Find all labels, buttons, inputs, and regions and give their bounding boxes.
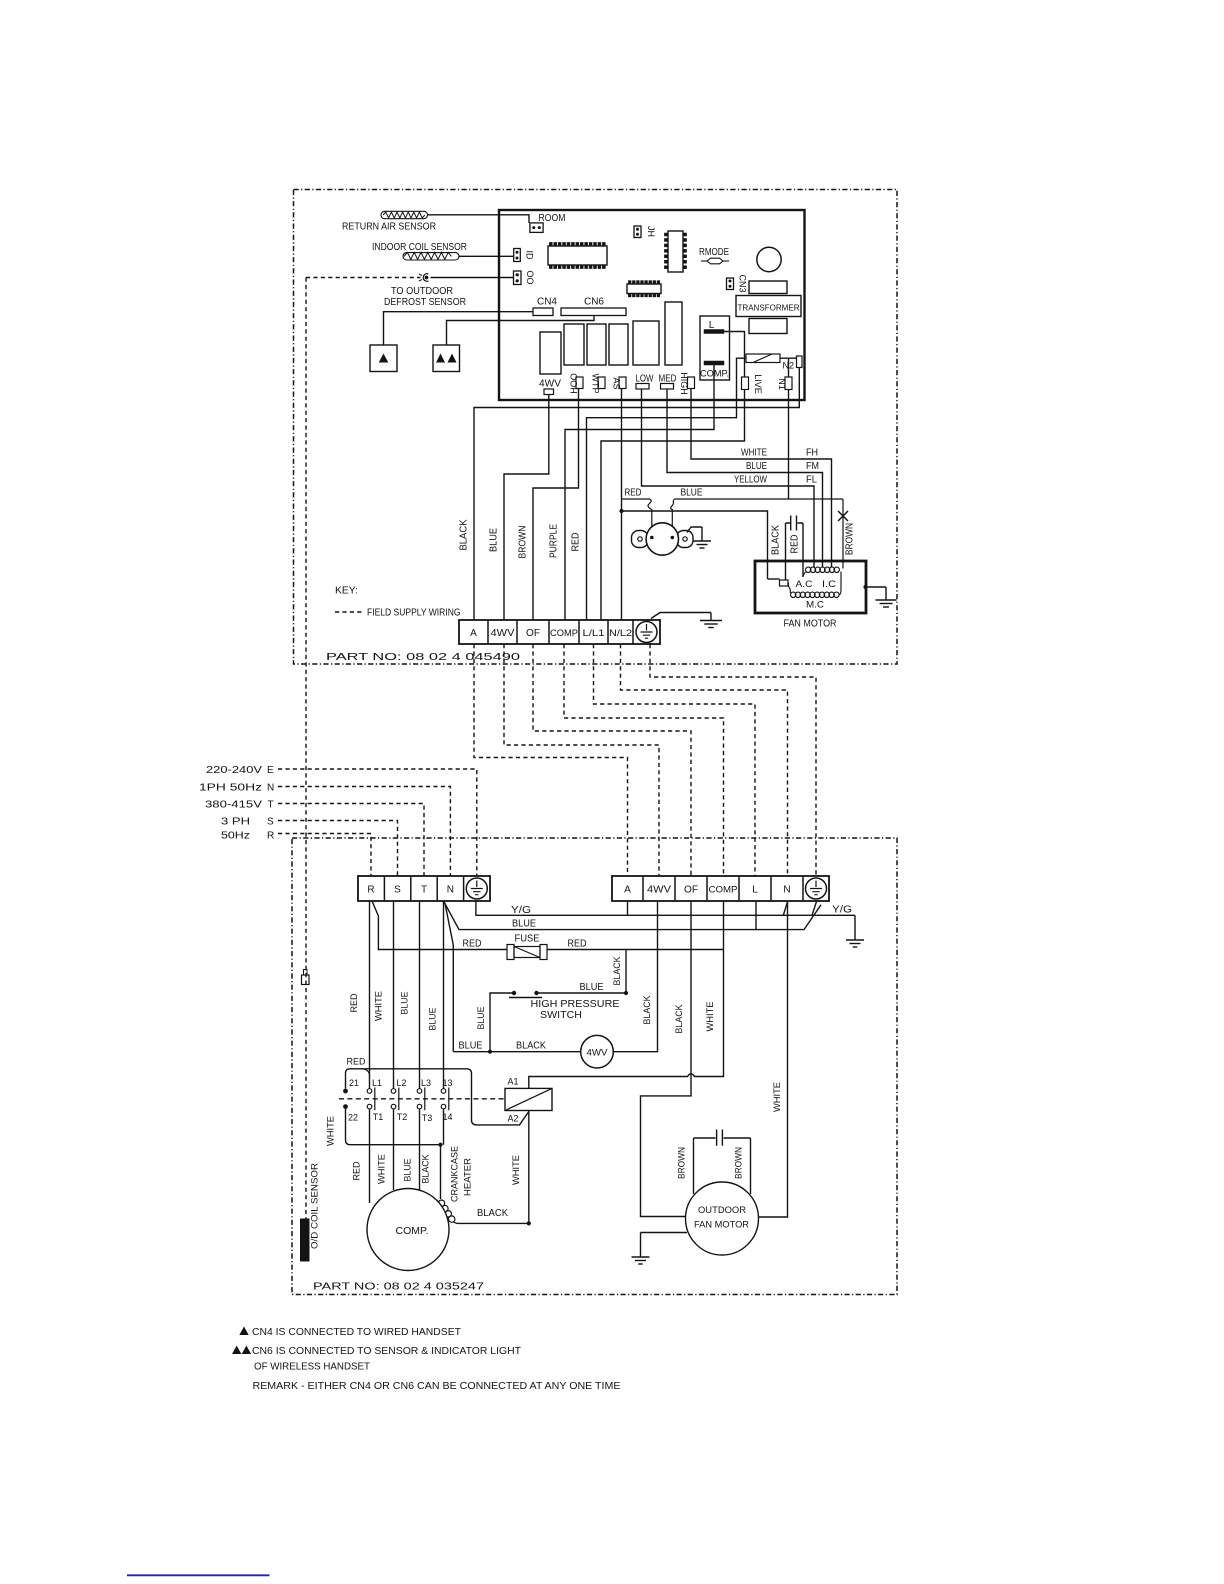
earth terminal symbol (TB2)	[466, 878, 487, 899]
svg-text:BLACK: BLACK	[674, 1005, 684, 1034]
svg-text:BROWN: BROWN	[845, 523, 856, 555]
svg-text:CRANKCASE: CRANKCASE	[450, 1146, 460, 1202]
svg-text:O/D COIL SENSOR: O/D COIL SENSOR	[310, 1163, 321, 1249]
wire N terminal down to contact 13	[443, 901, 445, 1089]
svg-text:BLUE: BLUE	[681, 488, 703, 499]
svg-text:TRANSFORMER: TRANSFORMER	[738, 303, 800, 313]
wire lug to M.C winding	[787, 584, 789, 587]
field wire L/L1-L (TB1 to TB3)	[594, 644, 756, 876]
svg-text:N: N	[447, 885, 454, 896]
wire N to 4WV valve line (diagonal feed)	[445, 904, 453, 1052]
relay K5	[633, 321, 659, 365]
svg-text:WHITE: WHITE	[374, 991, 384, 1021]
svg-text:L3: L3	[421, 1078, 431, 1088]
svg-text:A1: A1	[507, 1077, 518, 1087]
svg-text:22: 22	[348, 1113, 358, 1123]
svg-text:MED: MED	[659, 374, 677, 385]
ground at TB1 earth	[651, 613, 711, 619]
fan motor enclosure	[755, 561, 866, 613]
svg-text:BLUE: BLUE	[489, 528, 500, 552]
crankcase heater R1 (coil)	[438, 1200, 444, 1206]
svg-text:ROOM: ROOM	[539, 213, 566, 224]
pin pad WTP	[598, 377, 605, 389]
svg-text:BLUE: BLUE	[403, 1159, 413, 1182]
svg-text:S: S	[267, 817, 274, 828]
connector ROOM on PCB	[530, 223, 543, 233]
pin pad OOH	[576, 377, 583, 389]
wire 22 to aux line	[346, 1107, 441, 1145]
contact bar upper (comp relay)	[704, 330, 724, 334]
svg-text:RED: RED	[349, 993, 359, 1012]
svg-text:FIELD SUPPLY WIRING: FIELD SUPPLY WIRING	[367, 608, 461, 619]
svg-text:CN4: CN4	[537, 297, 557, 308]
wire OF terminal (BROWN)	[533, 389, 579, 621]
svg-text:RED: RED	[568, 939, 587, 950]
svg-text:FH: FH	[806, 448, 818, 459]
pin N2	[797, 356, 803, 368]
wire LIVE pin to PCB edge	[744, 390, 746, 401]
field wire N/L2-N (TB1 to TB3)	[621, 644, 788, 876]
node junction aux/heater	[438, 1143, 442, 1147]
wire R to contactor L1 (RED)	[369, 901, 371, 1089]
connector ID on PCB	[514, 249, 521, 262]
svg-text:FAN MOTOR: FAN MOTOR	[784, 619, 837, 630]
wire capacitor right lead (BROWN)	[750, 1138, 752, 1194]
wire HPS right (BLUE)	[537, 992, 627, 994]
field wire E (TB1 to TB3)	[650, 644, 816, 876]
wire N1 down to PCB edge	[788, 390, 790, 401]
footnote triangle 1	[239, 1327, 248, 1336]
svg-text:DEFROST SENSOR: DEFROST SENSOR	[384, 297, 466, 308]
svg-text:BLUE: BLUE	[400, 992, 410, 1015]
svg-text:RETURN AIR SENSOR: RETURN AIR SENSOR	[342, 222, 436, 233]
terminal block TB1 (indoor unit)	[459, 620, 660, 644]
svg-text:PURPLE: PURPLE	[549, 524, 560, 558]
field wire 4WV (TB1 to TB3)	[504, 644, 659, 876]
svg-text:BLACK: BLACK	[459, 519, 470, 550]
wire node to fan motor (BLACK)	[622, 511, 768, 579]
svg-text:I.C: I.C	[822, 579, 837, 589]
terminal lug (fan motor)	[780, 580, 789, 586]
pin pad MED	[661, 384, 674, 390]
svg-text:1PH 50Hz: 1PH 50Hz	[199, 783, 262, 794]
svg-text:SWITCH: SWITCH	[540, 1010, 582, 1021]
relay K6 (tall)	[665, 302, 682, 365]
component F1 (relay with diagonal)	[746, 354, 780, 363]
wire COMP bar down to PCB edge	[713, 365, 715, 400]
svg-text:RED: RED	[790, 535, 801, 554]
field wire OF (TB1 to TB3)	[533, 644, 691, 876]
svg-text:CN4 IS CONNECTED TO WIRED HAND: CN4 IS CONNECTED TO WIRED HANDSET	[252, 1327, 461, 1338]
fan motor M.C winding	[791, 592, 796, 597]
svg-text:WHITE: WHITE	[326, 1116, 336, 1146]
O/D coil sensor plug	[302, 975, 310, 985]
svg-text:T3: T3	[422, 1113, 433, 1123]
node junction heater line	[527, 1221, 531, 1225]
ground at thermal protector	[687, 527, 702, 533]
stub A terminal to Y/G wire	[627, 901, 629, 916]
bottom outer enclosure border (outdoor unit, dash-dot)	[292, 838, 897, 1295]
svg-text:R: R	[367, 885, 374, 896]
buzzer BZ (circle)	[757, 247, 781, 271]
wire 14 drop	[443, 1109, 445, 1145]
component RMODE (jumper link)	[701, 260, 707, 262]
svg-text:WHITE: WHITE	[511, 1155, 521, 1185]
svg-text:JH: JH	[646, 226, 656, 237]
svg-text:A: A	[624, 885, 631, 896]
svg-text:OUTDOOR: OUTDOOR	[698, 1205, 746, 1216]
wire 4WV valve line left	[453, 1051, 580, 1053]
svg-text:FL: FL	[806, 475, 817, 486]
svg-text:S: S	[394, 885, 401, 896]
connector CN4 on PCB	[533, 308, 553, 316]
wire L-bar to LIVE pin	[724, 332, 745, 378]
wire return air sensor to ROOM connector	[428, 215, 530, 223]
wireless handset connector box (double triangle)	[433, 345, 460, 372]
wire T3 into compressor (BLUE)	[419, 1109, 421, 1191]
wire BLUE (N TB2 across to right)	[444, 901, 822, 930]
transformer T1 (core blocks)	[749, 281, 787, 294]
wire A2 down to heater line (WHITE)	[528, 1111, 530, 1222]
wire capacitor right lead (RED) to A.C winding	[802, 523, 804, 577]
outdoor fan motor	[686, 1182, 759, 1255]
wire E terminal tap to Y/G	[812, 902, 817, 916]
svg-text:BLUE: BLUE	[428, 1008, 438, 1031]
node junction 4WV valve line	[488, 1050, 492, 1054]
svg-text:COMP: COMP	[550, 628, 578, 639]
wire T2 into compressor (WHITE)	[393, 1109, 395, 1190]
defrost sensor plug symbol	[423, 274, 428, 282]
field wire R supply	[278, 834, 371, 877]
svg-text:L2: L2	[396, 1078, 406, 1088]
svg-text:M.C: M.C	[806, 600, 825, 610]
wire outdoor fan right lead to N terminal (WHITE)	[759, 901, 788, 1217]
jumper JH	[634, 226, 641, 238]
indoor coil sensor element	[403, 253, 459, 260]
svg-text:R: R	[267, 831, 274, 842]
IC U2 (DIP package vertical)	[668, 231, 683, 272]
svg-text:Y/G: Y/G	[832, 905, 852, 916]
outdoor fan capacitor C2	[694, 1130, 751, 1146]
wire A terminal (BLACK)	[474, 400, 799, 620]
svg-text:CN6: CN6	[584, 297, 604, 308]
svg-text:A2: A2	[507, 1114, 518, 1124]
wire 21 jumper to A2	[346, 1069, 529, 1125]
svg-text:L/L1: L/L1	[583, 628, 605, 638]
svg-text:T: T	[421, 885, 427, 896]
svg-text:BROWN: BROWN	[734, 1147, 744, 1179]
svg-text:OF: OF	[526, 628, 540, 639]
svg-text:WHITE: WHITE	[705, 1002, 715, 1032]
wire indoor coil sensor to ID connector	[459, 255, 514, 257]
svg-text:4WV: 4WV	[539, 379, 561, 390]
wire L/L1 terminal (RED)	[587, 400, 737, 620]
svg-text:OO: OO	[525, 270, 535, 284]
svg-text:RED: RED	[571, 533, 582, 552]
svg-text:BLUE: BLUE	[459, 1041, 483, 1052]
high pressure switch S1 contacts	[512, 991, 516, 995]
svg-text:BLUE: BLUE	[580, 982, 604, 993]
IC U3 (small DIP package)	[627, 284, 661, 294]
wired handset connector box (single triangle)	[370, 345, 397, 372]
terminal block TB2 (supply R S T N earth)	[358, 876, 490, 901]
relay K1 (4WV)	[540, 332, 561, 374]
fuse F2	[507, 945, 514, 960]
svg-text:L1: L1	[372, 1078, 382, 1088]
svg-text:T1: T1	[373, 1112, 384, 1122]
field wire A (TB1 to TB3)	[474, 644, 628, 876]
wire N1 up to F1 lead	[788, 358, 790, 377]
svg-text:LIVE: LIVE	[753, 374, 763, 394]
svg-text:HEATER: HEATER	[463, 1157, 473, 1196]
svg-text:RED: RED	[463, 939, 482, 950]
earth terminal symbol (TB1)	[636, 622, 657, 643]
wire black lead into lug	[768, 578, 780, 580]
key dashed sample line	[335, 611, 365, 613]
field wire COMP (TB1 to TB3)	[564, 644, 724, 876]
node junction on N/L2 wire	[619, 509, 623, 513]
pin pad 4WV	[544, 389, 554, 395]
svg-text:YELLOW: YELLOW	[734, 475, 767, 486]
wire 4WV terminal (BLUE)	[504, 395, 549, 621]
svg-text:220-240V: 220-240V	[206, 765, 262, 776]
svg-text:KEY:: KEY:	[335, 586, 358, 597]
svg-text:FUSE: FUSE	[515, 934, 540, 945]
PCB board outline	[499, 210, 805, 400]
svg-text:13: 13	[442, 1078, 452, 1088]
svg-text:T2: T2	[397, 1112, 408, 1122]
wire RED with fuse (N to COMP column)	[372, 901, 724, 950]
svg-text:OF: OF	[684, 885, 698, 896]
svg-text:WHITE: WHITE	[741, 448, 767, 459]
top outer enclosure border (indoor unit, dash-dot)	[294, 190, 898, 665]
wire 21 jumper join L1	[362, 1069, 370, 1079]
svg-text:TO OUTDOOR: TO OUTDOOR	[391, 286, 453, 297]
solenoid 4WV	[581, 1035, 614, 1068]
svg-text:3 PH: 3 PH	[221, 817, 250, 828]
wire T to contactor L3 (BLUE)	[419, 901, 421, 1089]
connector CN3	[727, 278, 734, 290]
fan motor capacitor C1	[786, 516, 804, 531]
svg-text:ID: ID	[525, 251, 535, 261]
svg-text:4WV: 4WV	[587, 1048, 609, 1059]
svg-text:FAN MOTOR: FAN MOTOR	[694, 1220, 749, 1231]
wire N/L2 terminal (from AS pin)	[621, 389, 623, 621]
svg-text:LOW: LOW	[636, 374, 654, 385]
svg-text:PART NO: 08 02 4 045490: PART NO: 08 02 4 045490	[326, 652, 521, 663]
svg-text:RED: RED	[347, 1057, 366, 1067]
wire N terminal tap to Y/G	[783, 902, 787, 916]
svg-text:N/L2: N/L2	[609, 628, 632, 638]
wire FM (BLUE, MED pin to fan)	[667, 389, 823, 567]
svg-text:50Hz: 50Hz	[221, 831, 250, 842]
wire L/L1 second (to LIVE pin)	[601, 400, 745, 620]
svg-text:BLACK: BLACK	[516, 1041, 546, 1052]
wire protector red lead	[622, 499, 652, 535]
return air sensor element	[381, 211, 428, 218]
relay COMP outline	[700, 316, 730, 380]
wire S to contactor L2 (WHITE)	[393, 901, 395, 1089]
relay K3	[587, 324, 606, 365]
contactor MC main/aux contacts	[367, 1089, 372, 1094]
wire heater to A2 node (BLACK)	[454, 1222, 529, 1224]
wire HPS left (BLUE) down	[490, 993, 514, 1050]
wire 4WV terminal down to valve line (BLACK)	[613, 901, 657, 1052]
svg-text:COMP: COMP	[709, 885, 738, 896]
svg-text:OF WIRELESS HANDSET: OF WIRELESS HANDSET	[254, 1362, 370, 1373]
wire BLACK drop (fuse line to HPS line)	[625, 950, 627, 992]
field wire S supply	[278, 821, 398, 877]
field wire E supply	[278, 769, 477, 876]
break mark X on brown wire	[838, 511, 848, 521]
wire defrost plug to OO connector	[431, 277, 514, 279]
O/D coil sensor element	[301, 1219, 310, 1261]
wire FL (YELLOW, LOW pin to fan)	[642, 389, 815, 567]
svg-text:BLACK: BLACK	[642, 996, 652, 1025]
footnote triangles 2	[232, 1346, 241, 1355]
wire capacitor left lead to terminal lug	[785, 523, 787, 580]
svg-text:BLACK: BLACK	[477, 1208, 508, 1219]
svg-text:N1: N1	[777, 378, 787, 390]
svg-text:BROWN: BROWN	[677, 1147, 687, 1179]
wire L terminal drop to BLUE	[755, 901, 757, 930]
wire OF terminal to outdoor fan (BLACK)	[641, 901, 692, 1217]
svg-text:A.C: A.C	[796, 579, 814, 589]
svg-text:BLACK: BLACK	[612, 957, 622, 986]
connector OO on PCB	[514, 271, 522, 285]
svg-text:FM: FM	[806, 461, 819, 472]
svg-text:REMARK - EITHER CN4 OR CN6 CAN: REMARK - EITHER CN4 OR CN6 CAN BE CONNEC…	[253, 1381, 621, 1392]
svg-text:380-415V: 380-415V	[205, 800, 262, 811]
svg-text:E: E	[267, 765, 274, 776]
svg-text:L: L	[752, 885, 758, 896]
svg-text:CN6 IS CONNECTED TO SENSOR & I: CN6 IS CONNECTED TO SENSOR & INDICATOR L…	[252, 1346, 521, 1357]
svg-text:4WV: 4WV	[491, 628, 515, 639]
svg-text:RED: RED	[352, 1161, 362, 1180]
ground at fan motor right	[866, 586, 886, 588]
svg-text:BLUE: BLUE	[512, 919, 536, 930]
wire F1 left lead down to PCB edge	[737, 358, 747, 400]
fan motor A.C/I.C winding	[806, 567, 811, 572]
node junction HPS line	[624, 991, 628, 995]
svg-text:BROWN: BROWN	[518, 526, 529, 559]
pin pad LOW	[636, 384, 649, 390]
contactor coil A1/A2	[505, 1088, 552, 1110]
svg-text:Y/G: Y/G	[511, 905, 531, 916]
wire Y/G (earth TB2 along to right ground)	[476, 901, 855, 915]
svg-text:CN3: CN3	[738, 274, 748, 292]
wire FH (WHITE, HIGH pin to fan)	[691, 389, 832, 568]
svg-text:N: N	[267, 783, 274, 794]
svg-text:21: 21	[349, 1078, 359, 1088]
dashed wire to outdoor defrost sensor (horizontal)	[306, 277, 421, 279]
terminal block TB3 (outdoor unit)	[612, 876, 829, 901]
wire outdoor fan lower-left lead to ground	[641, 1232, 688, 1234]
wire COMP terminal to contactor coil A1 (WHITE)	[529, 901, 724, 1088]
svg-text:AS: AS	[612, 377, 622, 389]
contactor MC dashed actuator line	[339, 1098, 505, 1100]
svg-text:BLACK: BLACK	[421, 1155, 431, 1184]
IC U1 (DIP package horizontal)	[548, 246, 607, 265]
svg-text:WHITE: WHITE	[772, 1082, 782, 1112]
pin pad LIVE	[742, 377, 749, 390]
pin pad AS	[619, 377, 626, 389]
wire protector blue lead + run to fan brown	[671, 499, 843, 569]
contact bar lower (comp relay)	[704, 361, 724, 365]
svg-text:RED: RED	[625, 488, 642, 499]
svg-text:OOH: OOH	[569, 373, 579, 394]
field wire T supply	[278, 804, 424, 877]
wire CN4 to single-triangle connector	[384, 312, 534, 345]
relay K4	[609, 324, 628, 365]
wire N2 to PCB edge	[798, 368, 800, 401]
svg-text:T: T	[268, 800, 274, 811]
pin pad N1	[785, 377, 792, 390]
ground at TB3 earth	[854, 915, 856, 940]
svg-text:A: A	[470, 628, 477, 639]
svg-text:RMODE: RMODE	[699, 247, 729, 258]
connector CN6 on PCB	[561, 308, 626, 316]
svg-text:COMP.: COMP.	[396, 1225, 429, 1237]
compressor COMP	[367, 1189, 449, 1271]
svg-text:N: N	[783, 885, 790, 896]
wire N1 pin drop to protector-fan line	[788, 400, 790, 499]
svg-text:4WV: 4WV	[647, 885, 671, 896]
pin pad HIGH	[688, 377, 695, 389]
svg-text:BLUE: BLUE	[476, 1007, 486, 1030]
node on fan motor frame	[863, 585, 867, 589]
relay K2	[564, 324, 584, 365]
svg-text:HIGH PRESSURE: HIGH PRESSURE	[531, 999, 620, 1010]
wire capacitor left lead (BROWN)	[693, 1138, 695, 1194]
earth terminal symbol (TB3)	[806, 878, 827, 899]
decorative blue rule	[127, 1574, 270, 1576]
wire CN6 to double-triangle connector	[447, 316, 595, 346]
dashed wire outdoor defrost sensor run (vertical to O/D sensor)	[305, 278, 307, 1219]
field wire N supply	[278, 787, 450, 877]
wire aux node down to crankcase heater (BLACK)	[440, 1145, 442, 1199]
wire T1 into compressor (RED)	[369, 1109, 371, 1203]
svg-text:COMP.: COMP.	[700, 369, 729, 379]
svg-text:PART NO: 08 02 4 035247: PART NO: 08 02 4 035247	[313, 1282, 485, 1293]
svg-text:BLUE: BLUE	[746, 461, 767, 472]
wire COMP terminal (PURPLE)	[565, 400, 714, 620]
svg-text:BLACK: BLACK	[771, 525, 782, 555]
svg-text:WHITE: WHITE	[377, 1154, 387, 1184]
svg-text:INDOOR COIL SENSOR: INDOOR COIL SENSOR	[372, 242, 467, 253]
thermal protector OL1	[632, 531, 649, 548]
wire F1 right lead to N2	[780, 357, 797, 359]
